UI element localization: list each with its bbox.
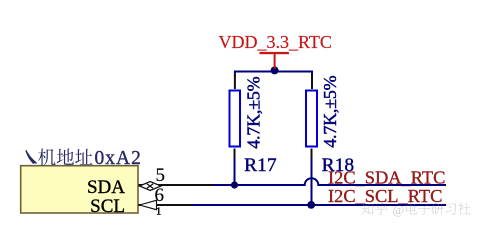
svg-text:4.7K,±5%: 4.7K,±5% <box>244 76 264 148</box>
svg-text:R17: R17 <box>244 155 277 176</box>
svg-text:SDA: SDA <box>87 177 125 198</box>
svg-text:VDD_3.3_RTC: VDD_3.3_RTC <box>219 32 332 52</box>
svg-text:6: 6 <box>155 185 165 206</box>
svg-text:1: 1 <box>156 206 161 217</box>
svg-text:R18: R18 <box>322 155 355 176</box>
svg-text:4.7K,±5%: 4.7K,±5% <box>320 75 340 147</box>
svg-text:5: 5 <box>156 165 166 186</box>
svg-text:@: @ <box>393 203 405 217</box>
svg-text:SCL: SCL <box>90 196 125 217</box>
svg-text:0xA2: 0xA2 <box>95 148 142 169</box>
